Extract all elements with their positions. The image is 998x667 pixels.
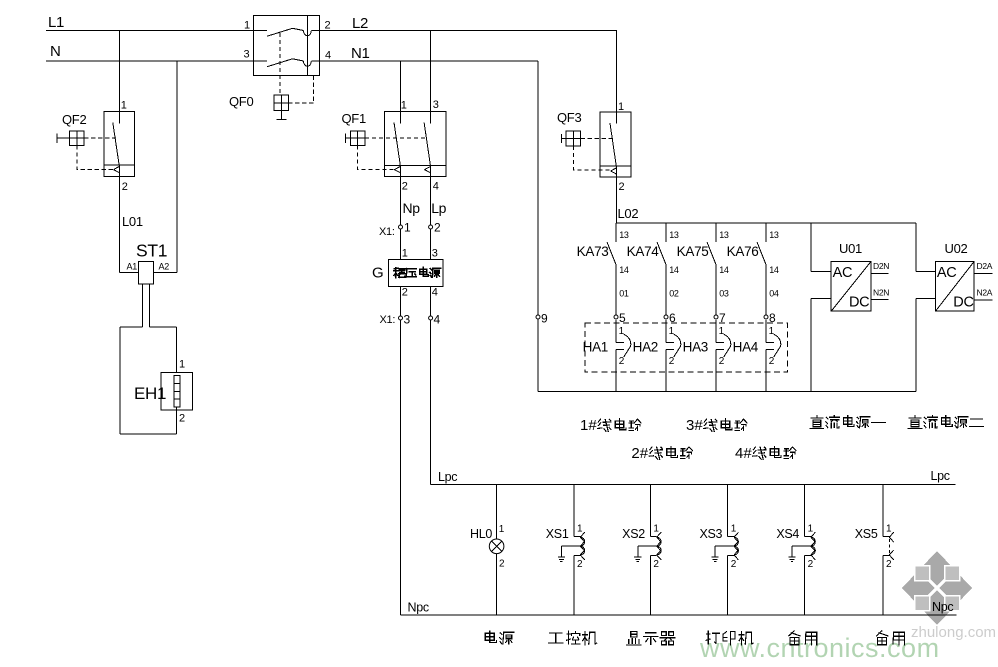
label EH1	[134, 384, 166, 403]
QF3 pin 1	[618, 101, 624, 113]
net Lpc label right	[931, 469, 950, 483]
svg-text:1: 1	[401, 100, 407, 112]
net L2 label	[352, 15, 368, 32]
net L1 label	[48, 14, 64, 31]
svg-text:2: 2	[325, 20, 331, 32]
svg-text:N: N	[50, 43, 61, 60]
G pin 1	[402, 248, 408, 260]
caption 3# bell	[686, 417, 747, 434]
svg-text:2: 2	[402, 287, 408, 299]
bell HA2	[666, 320, 681, 392]
HA1 pin 2	[619, 356, 625, 367]
svg-text:N1: N1	[351, 45, 370, 62]
net N1 label	[351, 45, 370, 62]
label XS2	[622, 527, 645, 541]
svg-text:1: 1	[719, 326, 725, 337]
QF1 pin 1	[401, 100, 407, 112]
circuit breaker QF1	[346, 31, 446, 260]
svg-text:XS4: XS4	[776, 527, 799, 541]
wire label 04	[769, 289, 779, 299]
caption DC supply 1	[810, 416, 885, 429]
caption DC supply 2	[908, 416, 983, 429]
caption 1# bell	[580, 417, 641, 434]
svg-text:2: 2	[769, 356, 775, 367]
U01 out D2N	[873, 261, 889, 271]
svg-text:2: 2	[808, 559, 814, 570]
XS5 pin 2	[886, 559, 892, 570]
svg-text:1: 1	[179, 359, 185, 371]
KA75 pin 13	[719, 230, 729, 240]
svg-text:14: 14	[619, 265, 629, 275]
bell HA1	[616, 320, 631, 392]
svg-text:3#: 3#	[686, 417, 703, 434]
svg-text:HA1: HA1	[583, 340, 608, 355]
watermark logo	[902, 551, 972, 625]
svg-text:3: 3	[432, 248, 438, 260]
wire N	[46, 60, 254, 62]
terminal strip X1 label 2	[380, 314, 396, 326]
svg-text:HA3: HA3	[683, 340, 708, 355]
KA73 pin 14	[619, 265, 629, 275]
svg-text:2: 2	[577, 559, 583, 570]
svg-text:L01: L01	[122, 214, 143, 229]
caption spare 2	[877, 631, 905, 645]
label QF2	[62, 112, 86, 127]
caption 4# bell	[735, 445, 796, 462]
svg-text:U01: U01	[839, 241, 862, 256]
svg-text:2: 2	[886, 559, 892, 570]
label XS3	[699, 527, 722, 541]
terminal 8	[764, 311, 776, 325]
heater EH1	[120, 327, 193, 434]
QF0 pin 4	[325, 50, 331, 62]
svg-text:1: 1	[808, 524, 814, 535]
wire Lp G to X1	[430, 287, 432, 485]
label QF1	[342, 111, 366, 126]
net Npc label right	[932, 600, 953, 614]
svg-text:1: 1	[731, 524, 737, 535]
svg-text:DC: DC	[953, 295, 973, 311]
svg-text:13: 13	[769, 230, 779, 240]
svg-text:4#: 4#	[735, 445, 752, 462]
svg-text:G: G	[372, 265, 383, 282]
EH1 pin 1	[179, 359, 185, 371]
svg-text:2: 2	[719, 356, 725, 367]
bell HA4	[766, 320, 781, 392]
net N label	[50, 43, 61, 60]
svg-text:D2A: D2A	[977, 261, 993, 271]
svg-text:QF1: QF1	[342, 111, 366, 126]
socket XS3	[712, 484, 739, 615]
svg-text:3: 3	[244, 49, 250, 61]
wire N1	[319, 60, 538, 62]
terminal 9	[536, 312, 548, 326]
AC-DC converter U02	[916, 223, 993, 391]
ST1 pin A1	[127, 262, 138, 272]
svg-text:04: 04	[769, 289, 779, 299]
svg-text:L1: L1	[48, 14, 64, 31]
svg-text:L02: L02	[618, 206, 639, 221]
svg-text:L2: L2	[352, 15, 368, 32]
svg-text:13: 13	[719, 230, 729, 240]
U01 DC text	[849, 295, 869, 311]
XS3 pin 2	[731, 559, 737, 570]
svg-text:02: 02	[669, 289, 679, 299]
svg-text:Lp: Lp	[431, 200, 446, 216]
svg-text:3: 3	[404, 313, 411, 327]
svg-text:Npc: Npc	[932, 600, 953, 614]
watermark cntronics	[699, 633, 940, 663]
U01 AC text	[833, 265, 853, 281]
QF2 pin 1	[121, 100, 127, 112]
socket XS1	[558, 484, 585, 615]
svg-text:2: 2	[669, 356, 675, 367]
XS4 pin 1	[808, 524, 814, 535]
net Np label	[403, 200, 421, 216]
caption 2# bell	[631, 445, 692, 462]
svg-text:XS1: XS1	[546, 527, 569, 541]
svg-text:X1:: X1:	[379, 226, 395, 238]
terminal 7	[714, 311, 726, 325]
QF0 pin 1	[244, 20, 250, 32]
caption spare 1	[789, 631, 817, 645]
XS5 pin 1	[886, 524, 892, 535]
svg-text:01: 01	[619, 289, 629, 299]
svg-text:HL0: HL0	[470, 527, 492, 541]
svg-text:9: 9	[541, 312, 548, 326]
svg-text:4: 4	[433, 181, 439, 193]
svg-text:U02: U02	[945, 241, 968, 256]
watermark zhulong.com	[911, 624, 996, 641]
svg-text:1#: 1#	[580, 417, 597, 434]
wire label 02	[669, 289, 679, 299]
label QF3	[557, 110, 581, 125]
svg-text:1: 1	[653, 524, 659, 535]
svg-text:2: 2	[653, 559, 659, 570]
label ST1	[136, 241, 167, 261]
wire Np G to X1	[400, 287, 402, 616]
KA73 pin 13	[619, 230, 629, 240]
svg-text:4: 4	[434, 313, 441, 327]
relay contact KA74	[657, 223, 666, 315]
svg-text:EH1: EH1	[134, 384, 166, 403]
power supply G box	[389, 260, 443, 287]
svg-text:X1:: X1:	[380, 314, 396, 326]
svg-text:KA74: KA74	[627, 244, 660, 259]
svg-text:XS5: XS5	[855, 527, 878, 541]
U02 DC text	[953, 295, 973, 311]
svg-text:1: 1	[619, 326, 625, 337]
socket XS2	[634, 484, 661, 615]
svg-text:XS3: XS3	[699, 527, 722, 541]
svg-text:QF3: QF3	[557, 110, 581, 125]
KA75 pin 14	[719, 265, 729, 275]
QF0 pin 2	[325, 20, 331, 32]
terminal X1-2	[429, 221, 441, 235]
svg-text:A1: A1	[127, 262, 138, 272]
label G	[372, 265, 383, 282]
svg-text:QF2: QF2	[62, 112, 86, 127]
caption printer	[706, 631, 753, 645]
relay contact KA75	[707, 223, 716, 315]
U02 AC text	[937, 265, 957, 281]
terminal 6	[664, 311, 676, 325]
net L02 label	[618, 206, 639, 221]
XS1 pin 1	[577, 524, 583, 535]
QF1 pin 3	[433, 99, 439, 111]
label QF0	[229, 94, 253, 109]
wire L1	[46, 30, 254, 32]
svg-text:2: 2	[619, 181, 625, 193]
terminal X1-1	[399, 221, 412, 235]
net Lpc label left	[438, 470, 457, 484]
terminal X1-3	[399, 313, 411, 327]
svg-text:13: 13	[619, 230, 629, 240]
svg-text:DC: DC	[849, 295, 869, 311]
svg-text:KA76: KA76	[727, 244, 759, 259]
caption industrial PC	[548, 631, 596, 645]
ST1 pin A2	[159, 262, 170, 272]
svg-text:1: 1	[499, 524, 505, 535]
wire label 01	[619, 289, 629, 299]
label KA75	[677, 244, 709, 259]
svg-text:KA73: KA73	[577, 244, 609, 259]
svg-text:14: 14	[769, 265, 779, 275]
svg-text:HA4: HA4	[733, 340, 759, 355]
relay contact KA76	[757, 223, 766, 315]
svg-text:Npc: Npc	[408, 601, 429, 615]
terminal X1-4	[429, 313, 441, 327]
svg-text:2: 2	[731, 559, 737, 570]
net Lp label	[431, 200, 446, 216]
HA3 pin 2	[719, 356, 725, 367]
HL0 pin 2	[499, 559, 505, 570]
svg-text:2: 2	[619, 356, 625, 367]
svg-text:1: 1	[404, 221, 411, 235]
socket XS4	[788, 484, 815, 615]
QF0 pin 3	[244, 49, 250, 61]
svg-text:4: 4	[432, 287, 438, 299]
relay contact KA73	[607, 223, 616, 315]
label XS5	[855, 527, 878, 541]
svg-text:N2N: N2N	[873, 288, 889, 298]
svg-text:1: 1	[618, 101, 624, 113]
net Npc label left	[408, 601, 429, 615]
wire N1 drop	[537, 61, 539, 392]
label KA74	[627, 244, 660, 259]
svg-text:AC: AC	[833, 265, 853, 281]
svg-text:2: 2	[434, 221, 441, 235]
caption display	[627, 632, 675, 646]
svg-text:3: 3	[433, 99, 439, 111]
wire Lpc bus	[431, 483, 956, 485]
QF1 pin 4	[433, 181, 439, 193]
label XS1	[546, 527, 569, 541]
wire Npc bus	[401, 614, 957, 616]
svg-text:2: 2	[499, 559, 505, 570]
wire label 03	[719, 289, 729, 299]
U01 out N2N	[873, 288, 889, 298]
HA2 pin 2	[669, 356, 675, 367]
wire L1 to QF2	[118, 31, 120, 124]
label HA2	[633, 340, 658, 355]
svg-text:1: 1	[669, 326, 675, 337]
HA1 pin 1	[619, 326, 625, 337]
bell HA3	[716, 320, 731, 392]
svg-text:Lpc: Lpc	[438, 470, 457, 484]
G pin 4	[432, 287, 438, 299]
circuit breaker QF0	[254, 16, 320, 120]
svg-text:XS2: XS2	[622, 527, 645, 541]
svg-text:1: 1	[244, 20, 250, 32]
XS3 pin 1	[731, 524, 737, 535]
EH1 pin 2	[179, 413, 185, 425]
svg-text:ST1: ST1	[136, 241, 167, 261]
svg-text:14: 14	[719, 265, 729, 275]
KA76 pin 14	[769, 265, 779, 275]
wire N to ST1 A2	[176, 61, 178, 273]
KA76 pin 13	[769, 230, 779, 240]
G pin 2	[402, 287, 408, 299]
QF3 pin 2	[619, 181, 625, 193]
XS4 pin 2	[808, 559, 814, 570]
svg-text:KA75: KA75	[677, 244, 709, 259]
terminal 5	[614, 311, 626, 325]
QF2 pin 2	[122, 181, 128, 193]
svg-text:03: 03	[719, 289, 729, 299]
svg-text:1: 1	[886, 524, 892, 535]
caption power	[485, 631, 514, 644]
lamp HL0	[489, 484, 504, 615]
svg-text:2#: 2#	[631, 445, 648, 462]
svg-text:2: 2	[179, 413, 185, 425]
label HA1	[583, 340, 608, 355]
circuit breaker QF3	[562, 31, 632, 224]
svg-text:1: 1	[577, 524, 583, 535]
svg-text:Lpc: Lpc	[931, 469, 950, 483]
svg-text:1: 1	[402, 248, 408, 260]
svg-text:1: 1	[121, 100, 127, 112]
circuit breaker QF2	[57, 31, 135, 273]
svg-text:1: 1	[769, 326, 775, 337]
svg-text:13: 13	[669, 230, 679, 240]
svg-text:QF0: QF0	[229, 94, 253, 109]
svg-text:N2A: N2A	[977, 288, 993, 298]
svg-text:AC: AC	[937, 265, 957, 281]
bells dashed enclosure	[585, 323, 788, 372]
terminal strip X1 label	[379, 226, 395, 238]
svg-text:2: 2	[402, 181, 408, 193]
svg-text:14: 14	[669, 265, 679, 275]
label HL0	[470, 527, 492, 541]
svg-text:HA2: HA2	[633, 340, 658, 355]
G pin 3	[432, 248, 438, 260]
svg-text:D2N: D2N	[873, 261, 889, 271]
label KA73	[577, 244, 609, 259]
svg-text:4: 4	[325, 50, 331, 62]
AC-DC converter U01	[811, 223, 889, 391]
wire L2	[319, 30, 617, 32]
label HA3	[683, 340, 708, 355]
wire L02 bus	[617, 222, 916, 224]
HA4 pin 1	[769, 326, 775, 337]
net L01 label	[122, 214, 143, 229]
label U01	[839, 241, 862, 256]
label U02	[945, 241, 968, 256]
wire bells N bus	[538, 391, 916, 393]
XS2 pin 2	[653, 559, 659, 570]
HA2 pin 1	[669, 326, 675, 337]
HL0 pin 1	[499, 524, 505, 535]
label HA4	[733, 340, 759, 355]
svg-text:A2: A2	[159, 262, 170, 272]
svg-text:2: 2	[122, 181, 128, 193]
KA74 pin 14	[669, 265, 679, 275]
label KA76	[727, 244, 759, 259]
socket XS5	[883, 484, 894, 615]
XS1 pin 2	[577, 559, 583, 570]
QF1 pin 2	[402, 181, 408, 193]
label XS4	[776, 527, 799, 541]
HA4 pin 2	[769, 356, 775, 367]
U02 out D2A	[977, 261, 993, 271]
U02 out N2A	[977, 288, 993, 298]
HA3 pin 1	[719, 326, 725, 337]
XS2 pin 1	[653, 524, 659, 535]
thermostat ST1	[119, 261, 177, 327]
svg-text:Np: Np	[403, 200, 421, 216]
KA74 pin 13	[669, 230, 679, 240]
